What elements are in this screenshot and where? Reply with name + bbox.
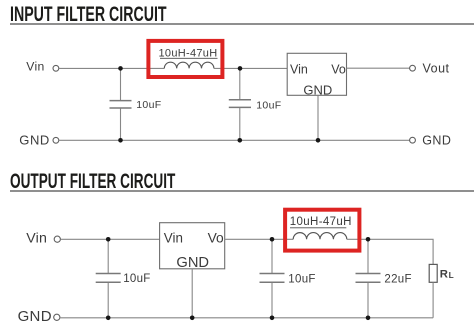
junction: C3 top node bbox=[106, 237, 111, 242]
wire: C4 junction to inductor L2 bbox=[272, 238, 293, 240]
wire: C2 junction to U1 Vin pin bbox=[240, 67, 287, 69]
svg-text:GND: GND bbox=[19, 133, 50, 148]
svg-text:GND: GND bbox=[303, 82, 332, 97]
junction: U2 GND node bbox=[190, 316, 195, 321]
junction: C1 top node bbox=[118, 66, 123, 71]
svg-text:10uF: 10uF bbox=[136, 99, 161, 111]
value label RL bbox=[440, 269, 454, 281]
svg-text:10uF: 10uF bbox=[123, 273, 150, 285]
svg-text:10uF: 10uF bbox=[288, 273, 315, 285]
value label 10uH-47uH for L1 bbox=[159, 47, 218, 59]
wire: L2 to C5 junction bbox=[347, 238, 368, 240]
regulator U1 box bbox=[287, 53, 346, 95]
wire: ground rail of input circuit bbox=[59, 139, 410, 141]
pin label GND of U2 bbox=[176, 255, 209, 271]
capacitor C2 10uF bbox=[229, 68, 251, 140]
terminal GND right (input circuit) bbox=[410, 137, 416, 143]
resistor RL (load) bbox=[429, 264, 437, 317]
junction: U1 GND node bbox=[316, 138, 321, 143]
rule under output title bbox=[10, 190, 474, 192]
pin label Vin of U2 bbox=[164, 231, 183, 246]
svg-text:Vout: Vout bbox=[423, 62, 450, 76]
value label 22uF for C5 bbox=[384, 273, 411, 285]
svg-text:Vo: Vo bbox=[331, 63, 346, 77]
svg-text:Vin: Vin bbox=[164, 231, 183, 246]
svg-text:10uH-47uH: 10uH-47uH bbox=[159, 47, 218, 59]
wire: ground rail of output circuit bbox=[60, 317, 433, 319]
wire: C5 junction to RL branch corner bbox=[368, 239, 433, 264]
wire: U1 Vo pin to Vout terminal bbox=[347, 67, 410, 69]
terminal GND left (input circuit) bbox=[53, 137, 59, 143]
terminal Vin (input circle) bbox=[53, 65, 59, 71]
junction: C5 top node bbox=[366, 237, 371, 242]
svg-text:Vin: Vin bbox=[26, 230, 47, 246]
value label 10uF for C2 bbox=[256, 100, 281, 112]
svg-text:L: L bbox=[449, 270, 454, 280]
regulator U2 box bbox=[160, 223, 225, 269]
junction: C4 bottom node bbox=[270, 316, 275, 321]
node GND label (output circuit) bbox=[18, 308, 52, 325]
wire: U2 GND pin to ground rail bbox=[191, 269, 193, 318]
node Vin label (input, top-left) bbox=[26, 60, 44, 74]
svg-text:GND: GND bbox=[422, 133, 451, 147]
node GND label (right, input circuit) bbox=[422, 133, 451, 147]
node Vout label bbox=[423, 62, 450, 76]
svg-text:R: R bbox=[440, 269, 448, 281]
value label 10uH-47uH for L2 bbox=[290, 216, 352, 228]
section title: INPUT FILTER CIRCUIT bbox=[10, 4, 167, 26]
wire: C3 junction to U2 Vin pin bbox=[108, 238, 159, 240]
svg-text:10uH-47uH: 10uH-47uH bbox=[290, 216, 352, 228]
svg-text:GND: GND bbox=[18, 308, 52, 325]
svg-text:10uF: 10uF bbox=[256, 100, 281, 112]
junction: C2 bottom node bbox=[238, 138, 243, 143]
svg-text:22uF: 22uF bbox=[384, 273, 411, 285]
junction: C4 top node bbox=[270, 237, 275, 242]
inductor L1 (10uH-47uH) bbox=[164, 62, 214, 68]
wire: Vin terminal to C3 junction bbox=[61, 238, 109, 240]
highlight box around L1 (red) bbox=[148, 41, 222, 77]
terminal GND (output circuit) bbox=[54, 314, 60, 320]
wire: L1 to C2 junction bbox=[214, 67, 240, 69]
wire: U2 Vo pin to C4 junction bbox=[225, 238, 272, 240]
svg-text:Vo: Vo bbox=[208, 231, 224, 246]
node Vin label (output circuit, top-left) bbox=[26, 230, 47, 246]
capacitor C5 22uF bbox=[356, 239, 381, 317]
capacitor C3 10uF bbox=[96, 239, 121, 317]
svg-text:Vin: Vin bbox=[26, 60, 44, 74]
svg-text:Vin: Vin bbox=[290, 63, 308, 77]
value label 10uF for C3 bbox=[123, 273, 150, 285]
highlight box around L2 (red) bbox=[285, 210, 359, 251]
terminal Vout (output circle) bbox=[410, 65, 416, 71]
value label 10uF for C4 bbox=[288, 273, 315, 285]
pin label Vo of U1 bbox=[331, 63, 346, 77]
capacitor C1 10uF (top lead) bbox=[110, 68, 132, 140]
value label 10uF for C1 bbox=[136, 99, 161, 111]
junction: C1 bottom node bbox=[118, 138, 123, 143]
wire: U1 GND pin to ground rail bbox=[317, 95, 319, 140]
section title: OUTPUT FILTER CIRCUIT bbox=[10, 171, 175, 193]
pin label GND of U1 bbox=[303, 82, 332, 97]
rule under input title bbox=[10, 23, 474, 25]
junction: C5 bottom node bbox=[366, 316, 371, 321]
terminal Vin (output circuit) bbox=[54, 236, 60, 242]
junction: C3 bottom node bbox=[106, 316, 111, 321]
wire: C1 junction to inductor L1 bbox=[121, 67, 165, 69]
wire: Vin terminal to C1 junction bbox=[59, 67, 121, 69]
junction: C2 top node bbox=[238, 66, 243, 71]
pin label Vo of U2 bbox=[208, 231, 224, 246]
inductor L2 (10uH-47uH) bbox=[293, 233, 347, 240]
pin label Vin of U1 bbox=[290, 63, 308, 77]
capacitor C4 10uF bbox=[260, 239, 285, 317]
node GND label (input side) bbox=[19, 133, 50, 148]
